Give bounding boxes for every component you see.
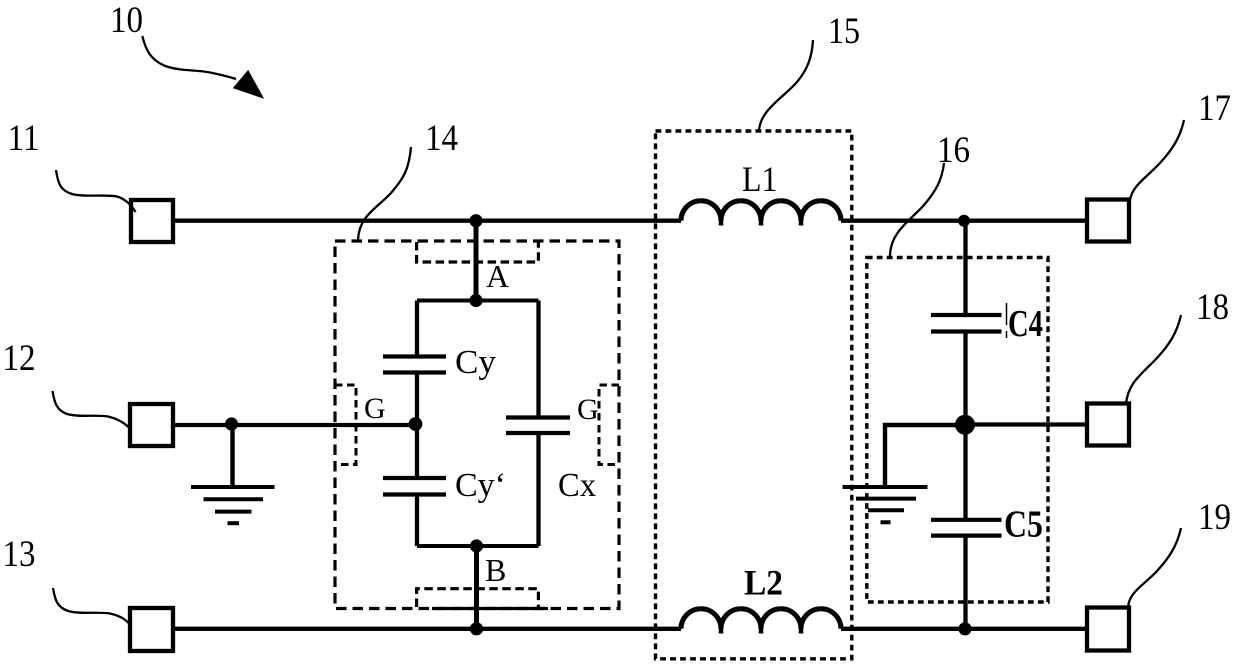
inner solid box bottom bbox=[417, 544, 539, 548]
dotted box 16 bbox=[867, 258, 1048, 603]
svg-text:17: 17 bbox=[1198, 88, 1231, 129]
svg-text:10: 10 bbox=[110, 0, 143, 41]
leader 14 bbox=[358, 147, 411, 240]
svg-text:B: B bbox=[485, 552, 506, 588]
node on bottom wire bbox=[470, 622, 483, 635]
stray mark before C4 bbox=[1006, 303, 1008, 338]
svg-text:L2: L2 bbox=[744, 563, 783, 603]
leader 19 bbox=[1128, 528, 1181, 608]
right branch vertical lower bbox=[963, 536, 967, 629]
wire to right ground bbox=[885, 425, 965, 487]
svg-text:Cy‘: Cy‘ bbox=[455, 467, 506, 504]
svg-text:15: 15 bbox=[828, 11, 860, 52]
node A bbox=[469, 294, 482, 307]
svg-text:14: 14 bbox=[425, 118, 458, 159]
leader 13 bbox=[53, 588, 129, 623]
left branch wire upper bbox=[415, 301, 419, 357]
inductor L2 bbox=[681, 609, 841, 629]
node B bbox=[470, 539, 483, 552]
node G junction bbox=[409, 417, 423, 431]
svg-text:G: G bbox=[364, 392, 386, 425]
node on top wire bbox=[469, 214, 482, 227]
left branch wire lower bbox=[415, 495, 419, 547]
leader 18 bbox=[1126, 315, 1181, 404]
inductor L2 junction ticks bbox=[721, 625, 801, 634]
big node junction bbox=[955, 415, 975, 435]
capacitor C5 bbox=[931, 520, 1002, 536]
inductor L1 junction ticks bbox=[721, 217, 801, 226]
node on top wire right bbox=[958, 215, 970, 227]
right branch wire lower bbox=[536, 433, 540, 546]
right branch vertical middle bbox=[963, 332, 967, 520]
port terminal 17 bbox=[1087, 200, 1129, 242]
node on bottom wire right bbox=[958, 622, 971, 635]
wire top line left segment bbox=[173, 219, 681, 223]
port terminal 18 bbox=[1087, 404, 1129, 446]
port terminal 19 bbox=[1087, 608, 1129, 651]
small dashed box at node B bbox=[417, 589, 539, 607]
svg-text:C5: C5 bbox=[1004, 504, 1043, 546]
svg-text:16: 16 bbox=[937, 130, 970, 171]
dashed G bracket right bbox=[599, 385, 619, 465]
port terminal 12 bbox=[130, 404, 173, 446]
leader arrow for 10 bbox=[142, 36, 236, 79]
wire top line right segment bbox=[841, 219, 1087, 223]
capacitor Cy' bbox=[383, 478, 446, 495]
wire bottom line right segment bbox=[841, 627, 1087, 631]
right branch wire upper bbox=[536, 301, 540, 418]
capacitor Cy bbox=[383, 357, 446, 373]
dashed G bracket left bbox=[335, 385, 356, 465]
inner solid box top bbox=[417, 299, 539, 303]
svg-text:C4: C4 bbox=[1008, 303, 1043, 345]
capacitor Cx bbox=[506, 418, 570, 434]
solid overlap segment on box 14 bottom edge bbox=[432, 607, 548, 610]
wire branch A vertical bbox=[474, 221, 479, 301]
wire middle from port 12 bbox=[173, 423, 417, 427]
dashed box 14 bbox=[335, 241, 619, 609]
svg-text:13: 13 bbox=[3, 534, 36, 575]
svg-text:Cy: Cy bbox=[455, 344, 496, 381]
port terminal 13 bbox=[130, 608, 173, 651]
port terminal 11 bbox=[131, 200, 173, 242]
right branch vertical upper bbox=[963, 221, 967, 315]
svg-text:A: A bbox=[486, 258, 509, 294]
svg-text:12: 12 bbox=[3, 338, 36, 379]
svg-text:18: 18 bbox=[1196, 287, 1229, 328]
capacitor C4 bbox=[931, 315, 1002, 332]
dotted box 15 bbox=[656, 131, 852, 659]
leader 15 bbox=[759, 40, 813, 131]
wire bottom line left segment bbox=[173, 627, 681, 631]
inductor L1 bbox=[681, 201, 841, 221]
svg-text:L1: L1 bbox=[742, 159, 778, 199]
leader 12 bbox=[53, 391, 130, 428]
leader 16 bbox=[890, 163, 944, 256]
wire ground stub left bbox=[230, 425, 234, 487]
ground symbol right bbox=[843, 487, 928, 522]
wire to port 18 bbox=[965, 422, 1087, 426]
svg-text:Cx: Cx bbox=[558, 467, 596, 504]
svg-text:11: 11 bbox=[8, 118, 40, 159]
svg-text:19: 19 bbox=[1198, 497, 1231, 538]
ground symbol left bbox=[191, 487, 275, 523]
node junction on middle wire bbox=[225, 417, 238, 430]
wire branch B vertical bbox=[474, 546, 479, 629]
small dashed box at node A bbox=[417, 242, 539, 262]
left branch wire middle bbox=[415, 373, 419, 479]
leader 17 bbox=[1130, 120, 1184, 200]
svg-text:G: G bbox=[577, 393, 599, 426]
leader 11 bbox=[56, 170, 136, 212]
